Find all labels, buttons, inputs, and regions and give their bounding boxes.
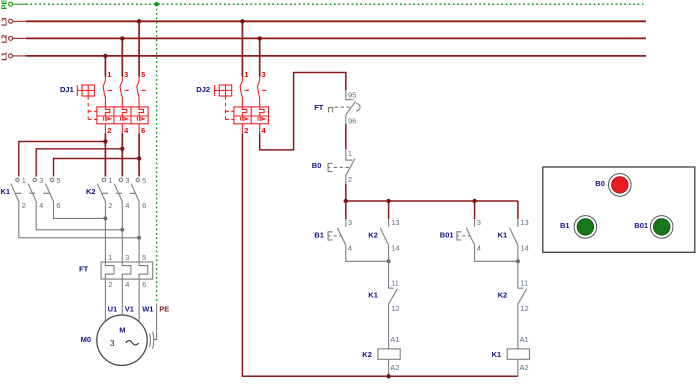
wire DJ1-6 down: [138, 134, 140, 177]
svg-text:1: 1: [107, 70, 111, 79]
svg-text:1: 1: [108, 253, 112, 262]
wire DJ1-2 down: [104, 134, 106, 177]
svg-text:PE: PE: [159, 305, 169, 314]
wire branch to K1-3: [36, 149, 122, 177]
wire DJ2-2 to bottom control rail: [242, 134, 518, 377]
svg-text:FT: FT: [314, 103, 324, 112]
coil K2: [362, 335, 400, 376]
svg-text:K1: K1: [498, 231, 508, 240]
contactor K1 main contacts: [1, 187, 50, 196]
wire L1 to DJ1 pole 1: [104, 56, 106, 77]
svg-text:1: 1: [22, 176, 26, 185]
wire L2 to DJ1 pole 2: [121, 38, 123, 76]
wire K2-6 down to FT: [138, 202, 140, 263]
svg-text:4: 4: [39, 201, 43, 210]
K1 pole 3: [46, 176, 61, 210]
panel button B01 (green): [634, 216, 673, 239]
DJ1 pole 1 contact: [103, 70, 112, 135]
svg-text:B0: B0: [312, 161, 322, 170]
svg-text:DJ2: DJ2: [196, 85, 210, 94]
svg-text:A1: A1: [520, 335, 529, 344]
svg-text:3: 3: [262, 70, 266, 79]
DJ2 pole 2 contact: [257, 70, 266, 135]
svg-text:1: 1: [348, 149, 352, 158]
DJ1 pole 3 contact: [137, 70, 146, 135]
svg-text:2: 2: [348, 175, 352, 184]
svg-text:2: 2: [108, 280, 112, 289]
svg-text:A2: A2: [520, 363, 529, 372]
svg-text:5: 5: [142, 176, 146, 185]
svg-text:4: 4: [125, 280, 129, 289]
junction B01/K1 join: [516, 259, 520, 263]
wire K1-6 to K2 output: [54, 202, 106, 219]
wire L3 to DJ1 pole 3: [138, 21, 140, 76]
svg-text:K2: K2: [362, 350, 372, 359]
svg-text:96: 96: [348, 117, 356, 126]
coil K1: [492, 335, 530, 376]
wire K2-2 down to FT: [104, 202, 106, 263]
junction PE branch: [154, 2, 158, 6]
wire FT to motor W1: [138, 279, 140, 322]
svg-text:FT: FT: [79, 265, 89, 274]
wire FT to motor U1: [104, 279, 106, 322]
junction L2/DJ2: [258, 36, 262, 40]
svg-text:K2: K2: [368, 231, 378, 240]
svg-text:5: 5: [141, 70, 145, 79]
svg-text:2: 2: [244, 126, 248, 135]
svg-text:4: 4: [348, 243, 352, 252]
motor frame arcs: [150, 332, 154, 349]
net L1 rail: [0, 52, 646, 61]
svg-text:6: 6: [142, 201, 146, 210]
K1 pole 1: [11, 176, 26, 210]
svg-text:14: 14: [391, 243, 399, 252]
contact K2 aux NO 13-14: [368, 218, 399, 261]
svg-text:4: 4: [477, 243, 481, 252]
wire PE to motor frame: [153, 304, 157, 340]
motor M0: [81, 315, 148, 365]
svg-text:6: 6: [56, 201, 60, 210]
pushbutton B0 (NC): [312, 149, 355, 184]
junction L3/DJ1: [137, 19, 141, 23]
svg-text:11: 11: [520, 279, 528, 288]
wire bus corner to K1 aux: [517, 201, 519, 219]
pushbutton panel: [543, 167, 695, 252]
panel button B1 (green): [560, 216, 597, 239]
K1 pole 2: [28, 176, 43, 210]
wire bus to B01: [474, 201, 476, 219]
svg-text:3: 3: [125, 253, 129, 262]
svg-text:L2: L2: [0, 35, 8, 44]
junction swap/phase2: [120, 228, 124, 232]
wire L3 to DJ2 pole 1: [241, 21, 243, 76]
wire FT to motor V1: [121, 279, 123, 315]
svg-text:2: 2: [107, 126, 111, 135]
svg-text:3: 3: [124, 70, 128, 79]
wire bus to K2 aux: [388, 201, 390, 219]
junction DJ1-2/K1 branch: [103, 139, 107, 143]
wire DJ1-4 down: [121, 134, 123, 177]
junction L2/DJ1: [120, 36, 124, 40]
svg-text:M0: M0: [81, 335, 91, 344]
svg-text:95: 95: [348, 90, 356, 99]
svg-text:L3: L3: [0, 17, 8, 26]
wire K1-4 to K2 output: [36, 202, 122, 230]
wire B01 to branch join: [475, 245, 518, 261]
svg-text:11: 11: [391, 279, 399, 288]
FT auxiliary NC contact 95-96: [314, 90, 360, 125]
svg-text:12: 12: [520, 304, 528, 313]
control bus node A: [344, 199, 518, 203]
svg-text:K1: K1: [368, 291, 378, 300]
svg-text:K2: K2: [498, 291, 508, 300]
svg-text:6: 6: [142, 280, 146, 289]
svg-text:4: 4: [125, 201, 129, 210]
pushbutton B1 (NO): [314, 218, 352, 252]
svg-text:B0: B0: [595, 179, 605, 188]
K2 pole 3: [131, 176, 146, 210]
svg-text:B01: B01: [440, 231, 454, 240]
svg-text:13: 13: [391, 218, 399, 227]
contact K1 aux NO 13-14: [498, 218, 529, 261]
svg-text:U1: U1: [108, 305, 118, 314]
wire branch to K1-5: [54, 159, 140, 177]
wire B1 to branch join: [346, 245, 389, 261]
svg-text:K1: K1: [1, 187, 11, 196]
junction B1/K2 join: [387, 259, 391, 263]
net PE rail: [0, 0, 644, 10]
svg-text:PE: PE: [0, 0, 8, 10]
svg-text:2: 2: [108, 201, 112, 210]
wire B0 to control bus: [345, 184, 347, 201]
svg-text:12: 12: [391, 304, 399, 313]
contact K1 aux NC 11-12: [368, 261, 399, 349]
svg-text:13: 13: [520, 218, 528, 227]
svg-text:3: 3: [110, 339, 115, 348]
svg-text:A2: A2: [390, 363, 399, 372]
svg-text:3: 3: [348, 218, 352, 227]
breaker DJ2: [196, 85, 268, 124]
K2 pole 2: [114, 176, 129, 210]
wire PE drop (green dotted): [156, 4, 158, 301]
junction swap/phase3: [137, 236, 141, 240]
DJ1 pole 2 contact: [120, 70, 129, 135]
svg-text:K2: K2: [86, 187, 96, 196]
svg-text:1: 1: [108, 176, 112, 185]
junction DJ1-6/K1 branch: [137, 156, 141, 160]
wire L2 to DJ2 pole 2: [259, 38, 261, 76]
net L2 rail: [0, 35, 646, 44]
svg-text:B1: B1: [314, 231, 324, 240]
pushbutton B01 (NO): [440, 218, 481, 252]
wire DJ2-4 to FT aux: [260, 73, 346, 150]
net L3 rail: [0, 17, 646, 26]
svg-text:1: 1: [244, 70, 248, 79]
wire FT aux to B0: [345, 124, 347, 149]
svg-text:3: 3: [125, 176, 129, 185]
K2 pole 1: [97, 176, 112, 210]
svg-text:A1: A1: [390, 335, 399, 344]
thermal relay FT power block: [79, 253, 153, 289]
svg-text:6: 6: [141, 126, 145, 135]
wire branch to K1-1: [19, 142, 106, 177]
svg-text:DJ1: DJ1: [60, 85, 74, 94]
wire K1-2 to K2 output (phase swap): [19, 202, 139, 238]
junction swap/phase1: [103, 216, 107, 220]
junction coil K2 / bottom rail: [386, 374, 390, 378]
wire bus to B1: [345, 201, 347, 219]
svg-text:B01: B01: [634, 221, 648, 230]
svg-text:5: 5: [56, 176, 60, 185]
svg-text:2: 2: [22, 201, 26, 210]
svg-text:W1: W1: [142, 305, 153, 314]
svg-text:V1: V1: [125, 305, 134, 314]
svg-text:B1: B1: [560, 221, 570, 230]
svg-text:M: M: [119, 326, 125, 335]
breaker DJ1: [60, 85, 148, 124]
DJ2 pole 1 contact: [240, 70, 249, 135]
wire K2-4 down to FT: [121, 202, 123, 263]
junction L1/DJ1: [103, 54, 107, 58]
contact K2 aux NC 11-12: [498, 261, 529, 349]
svg-text:K1: K1: [492, 350, 502, 359]
svg-text:14: 14: [520, 243, 528, 252]
junction L3/DJ2: [240, 19, 244, 23]
contactor K2 main contacts: [86, 187, 136, 196]
svg-text:3: 3: [39, 176, 43, 185]
junction DJ1-4/K1 branch: [120, 147, 124, 151]
svg-text:3: 3: [477, 218, 481, 227]
panel button B0 (red): [595, 174, 631, 197]
svg-text:5: 5: [142, 253, 146, 262]
svg-text:L1: L1: [0, 52, 8, 61]
